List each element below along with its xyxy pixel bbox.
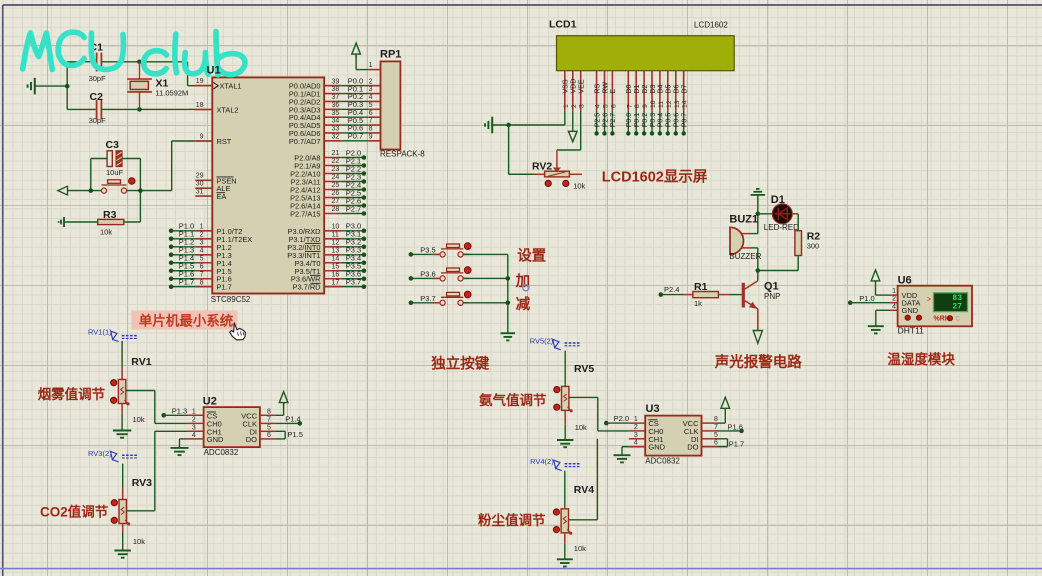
svg-text:2: 2 <box>369 78 373 85</box>
svg-text:P3.6: P3.6 <box>420 269 435 278</box>
svg-text:7: 7 <box>714 424 718 431</box>
svg-text:4: 4 <box>892 303 896 310</box>
svg-text:D1: D1 <box>634 84 641 93</box>
svg-text:31: 31 <box>196 189 204 196</box>
svg-text:30pF: 30pF <box>89 74 107 83</box>
svg-text:BUZZER: BUZZER <box>729 252 761 261</box>
svg-text:33: 33 <box>332 126 340 133</box>
svg-text:2: 2 <box>634 424 638 431</box>
svg-text:ADC0832: ADC0832 <box>645 456 680 465</box>
svg-text:1k: 1k <box>694 299 702 308</box>
svg-text:10k: 10k <box>133 415 145 424</box>
svg-text:U6: U6 <box>898 275 912 287</box>
svg-text:4: 4 <box>634 440 638 447</box>
svg-text:P2.7: P2.7 <box>610 113 617 128</box>
svg-text:10uF: 10uF <box>106 168 124 177</box>
svg-text:6: 6 <box>267 432 271 439</box>
svg-text:GND: GND <box>648 443 665 452</box>
svg-text:P0.6: P0.6 <box>674 113 681 128</box>
svg-text:DO: DO <box>687 443 698 452</box>
svg-text:P2.6: P2.6 <box>602 113 609 128</box>
svg-text:DO: DO <box>246 435 257 444</box>
svg-text:29: 29 <box>196 173 204 180</box>
svg-text:STC89C52: STC89C52 <box>211 295 251 304</box>
svg-text:8: 8 <box>267 408 271 415</box>
svg-text:14: 14 <box>332 255 340 262</box>
svg-text:P1.3: P1.3 <box>172 406 187 415</box>
svg-text:VDD: VDD <box>571 79 578 94</box>
svg-text:11: 11 <box>658 101 665 108</box>
svg-text:39: 39 <box>332 78 340 85</box>
svg-text:24: 24 <box>332 174 340 181</box>
svg-text:P1.7: P1.7 <box>729 439 744 448</box>
svg-text:13: 13 <box>332 247 340 254</box>
svg-text:RV3: RV3 <box>132 477 152 489</box>
svg-text:D4: D4 <box>658 84 665 93</box>
svg-text:VSS: VSS <box>563 79 570 93</box>
svg-text:P1.4: P1.4 <box>285 414 300 423</box>
svg-text:5: 5 <box>714 432 718 439</box>
svg-text:D3: D3 <box>650 84 657 93</box>
svg-text:P0.2: P0.2 <box>642 113 649 128</box>
svg-text:1: 1 <box>892 288 896 295</box>
svg-text:BUZ1: BUZ1 <box>729 213 758 225</box>
svg-text:32: 32 <box>332 133 340 140</box>
svg-text:10: 10 <box>332 223 340 230</box>
svg-text:GND: GND <box>902 306 919 315</box>
svg-text:35: 35 <box>332 110 340 117</box>
svg-text:X1: X1 <box>156 77 169 89</box>
svg-text:300: 300 <box>807 242 820 251</box>
svg-text:8: 8 <box>634 104 641 108</box>
svg-text:3: 3 <box>200 239 204 246</box>
svg-text:P2.0: P2.0 <box>614 414 629 423</box>
svg-text:GND: GND <box>207 435 224 444</box>
svg-text:8: 8 <box>714 416 718 423</box>
svg-text:烟雾值调节: 烟雾值调节 <box>38 386 106 402</box>
svg-text:4: 4 <box>369 94 373 101</box>
svg-text:37: 37 <box>332 94 340 101</box>
svg-text:D0: D0 <box>626 84 633 93</box>
svg-text:10k: 10k <box>100 228 112 237</box>
svg-text:粉尘值调节: 粉尘值调节 <box>478 512 546 528</box>
svg-text:6: 6 <box>714 440 718 447</box>
svg-text:减: 减 <box>516 295 531 313</box>
svg-text:R2: R2 <box>807 230 821 242</box>
svg-text:>: > <box>927 296 931 303</box>
svg-text:22: 22 <box>332 158 340 165</box>
svg-text:19: 19 <box>196 78 204 85</box>
svg-text:27: 27 <box>332 198 340 205</box>
svg-text:8: 8 <box>369 126 373 133</box>
svg-text:RW: RW <box>602 82 609 94</box>
svg-text:D1: D1 <box>771 194 785 206</box>
svg-text:P1.6: P1.6 <box>728 422 743 431</box>
svg-text:34: 34 <box>332 118 340 125</box>
svg-text:38: 38 <box>332 86 340 93</box>
svg-text:28: 28 <box>332 206 340 213</box>
svg-text:13: 13 <box>674 100 681 108</box>
svg-text:2: 2 <box>192 416 196 423</box>
svg-text:R1: R1 <box>694 281 708 293</box>
svg-text:11: 11 <box>332 231 339 238</box>
svg-text:P3.7/RD: P3.7/RD <box>293 283 321 292</box>
svg-text:16: 16 <box>332 271 340 278</box>
svg-text:P0.1: P0.1 <box>634 113 641 128</box>
svg-text:LCD1: LCD1 <box>549 19 577 31</box>
svg-text:11.0592M: 11.0592M <box>156 89 189 98</box>
svg-text:RV4(2): RV4(2) <box>530 457 554 466</box>
svg-text:1: 1 <box>563 104 570 108</box>
svg-text:14: 14 <box>682 100 689 108</box>
svg-text:EA: EA <box>217 192 227 201</box>
svg-text:D5: D5 <box>666 84 673 93</box>
svg-text:D7: D7 <box>682 84 689 93</box>
svg-text:C3: C3 <box>106 139 120 151</box>
svg-text:独立按键: 独立按键 <box>431 354 489 372</box>
svg-text:7: 7 <box>267 416 271 423</box>
svg-text:P0.7/AD7: P0.7/AD7 <box>289 137 321 146</box>
svg-text:C: C <box>956 316 961 322</box>
svg-text:6: 6 <box>200 263 204 270</box>
svg-text:RV4: RV4 <box>574 484 594 496</box>
svg-text:VEE: VEE <box>579 79 586 93</box>
svg-text:4: 4 <box>192 432 196 439</box>
svg-text:30pF: 30pF <box>89 116 107 125</box>
svg-text:P1.7: P1.7 <box>179 278 194 287</box>
svg-text:P2.4: P2.4 <box>664 285 679 294</box>
svg-text:RV1: RV1 <box>131 356 151 368</box>
svg-text:RV1(1): RV1(1) <box>88 327 112 336</box>
svg-text:1: 1 <box>200 223 204 230</box>
svg-text:17: 17 <box>332 279 340 286</box>
svg-text:U3: U3 <box>646 403 660 415</box>
svg-text:25: 25 <box>332 182 340 189</box>
svg-text:10: 10 <box>650 100 657 108</box>
svg-text:P0.5: P0.5 <box>666 113 673 128</box>
svg-text:RV5(2): RV5(2) <box>530 337 554 346</box>
svg-text:1: 1 <box>192 408 196 415</box>
svg-text:6: 6 <box>369 110 373 117</box>
svg-text:3: 3 <box>579 104 586 108</box>
svg-text:P3.7: P3.7 <box>420 294 435 303</box>
svg-text:P2.5: P2.5 <box>594 113 601 128</box>
svg-text:设置: 设置 <box>517 247 546 264</box>
svg-text:2: 2 <box>571 104 578 108</box>
svg-text:RESPACK-8: RESPACK-8 <box>380 150 425 159</box>
svg-text:12: 12 <box>332 239 340 246</box>
svg-text:D6: D6 <box>674 84 681 93</box>
svg-text:36: 36 <box>332 102 340 109</box>
svg-text:单片机最小系统: 单片机最小系统 <box>139 312 234 328</box>
svg-text:10k: 10k <box>133 537 145 546</box>
svg-text:P0.7: P0.7 <box>682 113 689 128</box>
svg-text:PNP: PNP <box>764 292 780 301</box>
svg-text:E: E <box>610 89 617 94</box>
svg-text:7: 7 <box>200 271 204 278</box>
svg-text:P0.3: P0.3 <box>650 113 657 128</box>
svg-text:LCD1602: LCD1602 <box>694 21 728 30</box>
svg-text:RP1: RP1 <box>380 49 401 61</box>
svg-text:RV5: RV5 <box>574 363 594 375</box>
svg-text:9: 9 <box>642 104 649 108</box>
svg-text:1: 1 <box>369 62 373 69</box>
svg-text:27: 27 <box>952 302 962 311</box>
svg-text:4: 4 <box>595 104 602 108</box>
svg-text:3: 3 <box>634 432 638 439</box>
svg-text:U2: U2 <box>203 396 217 408</box>
svg-text:P3.7: P3.7 <box>346 278 361 287</box>
svg-text:氨气值调节: 氨气值调节 <box>479 392 547 408</box>
svg-text:9: 9 <box>369 133 373 140</box>
svg-text:3: 3 <box>369 86 373 93</box>
svg-text:P1.7: P1.7 <box>217 283 232 292</box>
svg-text:10k: 10k <box>573 181 585 190</box>
svg-text:P2.7/A15: P2.7/A15 <box>290 210 320 219</box>
svg-text:P3.5: P3.5 <box>420 245 435 254</box>
svg-text:RV2: RV2 <box>532 160 552 172</box>
svg-text:XTAL2: XTAL2 <box>217 106 239 115</box>
svg-text:7: 7 <box>369 118 373 125</box>
svg-text:30: 30 <box>196 181 204 188</box>
svg-text:3: 3 <box>192 424 196 431</box>
svg-text:8: 8 <box>200 279 204 286</box>
svg-text:5: 5 <box>200 255 204 262</box>
svg-text:12: 12 <box>666 100 673 108</box>
svg-text:26: 26 <box>332 190 340 197</box>
svg-text:7: 7 <box>626 104 633 108</box>
svg-text:D2: D2 <box>642 84 649 93</box>
svg-text:15: 15 <box>332 263 340 270</box>
svg-text:温湿度模块: 温湿度模块 <box>887 351 955 367</box>
svg-text:P0.0: P0.0 <box>626 113 633 128</box>
svg-text:DHT11: DHT11 <box>898 326 925 336</box>
svg-text:RST: RST <box>217 137 232 146</box>
svg-text:5: 5 <box>267 424 271 431</box>
svg-text:P1.5: P1.5 <box>288 430 303 439</box>
svg-text:声光报警电路: 声光报警电路 <box>714 353 802 371</box>
svg-text:18: 18 <box>196 102 204 109</box>
svg-text:P1.0: P1.0 <box>859 294 874 303</box>
svg-text:10k: 10k <box>575 423 587 432</box>
svg-text:23: 23 <box>332 166 340 173</box>
svg-text:5: 5 <box>603 104 610 108</box>
svg-text:10k: 10k <box>574 544 586 553</box>
svg-text:5: 5 <box>369 102 373 109</box>
svg-text:4: 4 <box>200 247 204 254</box>
svg-text:9: 9 <box>200 133 204 140</box>
svg-text:6: 6 <box>610 104 617 108</box>
svg-text:1: 1 <box>634 416 638 423</box>
svg-text:RV3(2): RV3(2) <box>88 449 112 458</box>
svg-text:P2.7: P2.7 <box>346 204 361 213</box>
svg-text:LED-RED: LED-RED <box>764 223 799 232</box>
svg-text:ADC0832: ADC0832 <box>204 448 239 457</box>
svg-text:C2: C2 <box>90 91 104 103</box>
svg-text:2: 2 <box>200 231 204 238</box>
svg-text:P0.7: P0.7 <box>348 132 363 141</box>
svg-text:21: 21 <box>332 150 340 157</box>
svg-text:U1: U1 <box>207 65 221 77</box>
svg-text:XTAL1: XTAL1 <box>220 82 242 91</box>
svg-text:CO2值调节: CO2值调节 <box>40 504 109 520</box>
svg-text:RS: RS <box>594 83 601 93</box>
svg-text:LCD1602显示屏: LCD1602显示屏 <box>602 168 708 185</box>
svg-text:P0.4: P0.4 <box>658 113 665 128</box>
svg-text:2: 2 <box>892 296 896 303</box>
